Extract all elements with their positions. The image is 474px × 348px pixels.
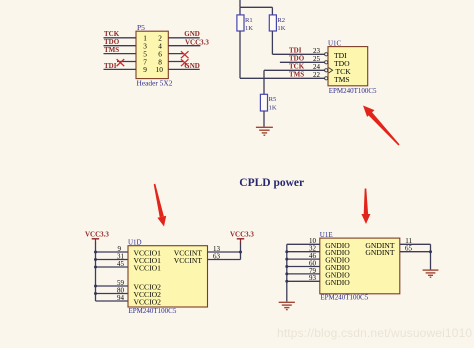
svg-text:65: 65: [405, 245, 413, 253]
junction at pin9 bus: [94, 251, 97, 254]
resistor R5: [260, 94, 267, 111]
wire VCC3.3 bus (U1D left): [95, 242, 97, 301]
resistor R1: [237, 15, 244, 31]
svg-text:GNDINT: GNDINT: [365, 248, 394, 257]
power port VCC3.3 (U1D right): [230, 231, 254, 243]
wire R2 bottom to TDI line: [271, 31, 273, 54]
wire stub P5 pin6: [168, 53, 184, 55]
svg-text:P5: P5: [137, 23, 145, 32]
wire U1D pin13: [208, 251, 241, 253]
annotation red arrow to U1C: [363, 106, 400, 146]
junction at pin46 bus: [285, 258, 288, 261]
wire TCK to U1C pin24: [264, 69, 325, 71]
junction at pin80 bus: [94, 292, 97, 295]
wire TDI to P5 pin9: [104, 68, 137, 70]
ground symbol right of U1E: [423, 270, 439, 277]
svg-text:TDI: TDI: [289, 47, 302, 55]
svg-text:25: 25: [313, 55, 321, 63]
U1C pin22 input dot: [325, 77, 328, 80]
wire U1D right vertical to power: [240, 242, 242, 260]
junction at pin93 bus: [285, 280, 288, 283]
wire VCC feed vertical at top: [239, 0, 241, 7]
junction at pin65 vertical: [429, 250, 432, 253]
no-ERC marker X on P5 pin6: [181, 51, 189, 58]
svg-text:1K: 1K: [245, 25, 253, 32]
wire U1E GND bus (left): [286, 244, 288, 301]
svg-text:TCK: TCK: [289, 63, 305, 71]
svg-text:R1: R1: [245, 17, 253, 24]
annotation red arrow to U1E: [361, 189, 370, 225]
wire U1E pin46: [287, 258, 320, 260]
svg-text:45: 45: [117, 260, 125, 268]
U1C pin23 input dot: [325, 53, 328, 56]
wire stub P5 pin8: [168, 61, 184, 63]
svg-text:94: 94: [117, 294, 125, 302]
no-ERC marker X on P5 pin8: [181, 59, 189, 66]
U1C pin25 input dot: [325, 61, 328, 64]
svg-text:TMS: TMS: [334, 75, 350, 84]
wire TCK to P5 pin1: [104, 37, 137, 39]
wire P5 pin4 to VCC3.3: [168, 45, 200, 47]
wire P5 pin2 to GND: [168, 37, 199, 39]
svg-text:TMS: TMS: [289, 71, 304, 79]
svg-text:VCC3.3: VCC3.3: [85, 231, 109, 239]
svg-text:https://blog.csdn.net/wusuowei: https://blog.csdn.net/wusuowei1010: [277, 326, 472, 340]
svg-text:TDO: TDO: [289, 55, 305, 63]
wire U1E pin10: [287, 243, 320, 245]
svg-text:1K: 1K: [277, 25, 285, 32]
wire R1 top lead: [239, 7, 241, 15]
wire U1D pin31: [96, 259, 129, 261]
wire R1 bottom to TMS line: [239, 31, 241, 78]
svg-text:VCC3.3: VCC3.3: [230, 231, 254, 239]
svg-text:63: 63: [213, 252, 221, 260]
wire U1D pin94: [96, 300, 129, 302]
wire U1D pin59: [96, 285, 129, 287]
power port VCC3.3 (U1D left): [85, 231, 109, 243]
wire TDO to P5 pin3: [104, 45, 137, 47]
svg-text:VCC3.3: VCC3.3: [185, 38, 209, 46]
svg-text:TMS: TMS: [104, 46, 119, 54]
wire P5 pin10 to GND: [168, 68, 199, 70]
svg-text:93: 93: [309, 274, 317, 282]
wire R5 top to TCK line: [263, 70, 265, 94]
annotation red arrow to U1D: [154, 184, 167, 227]
junction at pin59 bus: [94, 285, 97, 288]
ground symbol below R5: [256, 127, 273, 135]
junction at pin31 bus: [94, 258, 97, 261]
svg-text:R5: R5: [269, 96, 277, 103]
connector P5 body: [136, 31, 168, 78]
resistor R2: [269, 15, 276, 31]
wire R5 bottom to ground: [263, 111, 265, 127]
svg-text:VCCIO2: VCCIO2: [134, 298, 162, 307]
junction at pin60 bus: [285, 265, 288, 268]
IC U1C body: [328, 47, 368, 86]
svg-text:VCCIO1: VCCIO1: [134, 264, 162, 273]
U1C pin24 input dot: [325, 69, 328, 72]
ground symbol below U1E left bus: [279, 302, 295, 309]
IC U1D body: [128, 246, 208, 307]
svg-text:22: 22: [313, 71, 321, 79]
junction at pin13 vertical: [239, 251, 242, 254]
wire joining R1 and R2 tops: [240, 6, 272, 8]
wire U1D pin63: [208, 259, 241, 261]
svg-text:23: 23: [313, 47, 321, 55]
wire U1E pin65: [400, 251, 431, 253]
wire U1E pin32: [287, 251, 320, 253]
svg-text:EPM240T100C5: EPM240T100C5: [320, 293, 368, 301]
wire TMS to U1C pin22: [240, 77, 325, 79]
wire stub P5 pin7: [117, 61, 136, 63]
wire U1E pin11: [400, 243, 431, 245]
IC U1E body: [320, 238, 400, 294]
wire U1D pin9: [96, 251, 129, 253]
wire R2 top lead: [271, 7, 273, 15]
svg-text:10: 10: [156, 65, 164, 74]
svg-text:1K: 1K: [269, 104, 277, 111]
svg-text:R2: R2: [277, 17, 285, 24]
wire U1D pin80: [96, 293, 129, 295]
svg-text:EPM240T100C5: EPM240T100C5: [129, 307, 177, 315]
svg-text:Header 5X2: Header 5X2: [137, 79, 173, 88]
svg-text:24: 24: [313, 63, 321, 71]
svg-text:CPLD power: CPLD power: [239, 177, 304, 189]
svg-text:9: 9: [143, 65, 147, 74]
wire U1E pin93: [287, 280, 320, 282]
U1C clock mark on TCK: [329, 68, 333, 73]
junction at pin79 bus: [285, 272, 288, 275]
wire U1E right vertical to ground: [430, 244, 432, 269]
junction at pin32 bus: [285, 250, 288, 253]
junction at pin45 bus: [94, 266, 97, 269]
wire TDI to U1C pin23: [272, 53, 324, 55]
wire U1E pin60: [287, 266, 320, 268]
svg-text:GNDIO: GNDIO: [325, 278, 350, 287]
svg-text:TCK: TCK: [104, 30, 120, 38]
wire U1E pin79: [287, 273, 320, 275]
svg-text:VCCINT: VCCINT: [174, 256, 203, 265]
svg-text:TDO: TDO: [104, 38, 120, 46]
svg-text:EPM240T100C5: EPM240T100C5: [329, 87, 377, 95]
wire TDO to U1C pin25: [280, 61, 325, 63]
wire TMS to P5 pin5: [104, 53, 137, 55]
no-ERC marker X on P5 pin7: [117, 59, 125, 66]
wire U1D pin45: [96, 266, 129, 268]
svg-text:GND: GND: [184, 30, 200, 38]
